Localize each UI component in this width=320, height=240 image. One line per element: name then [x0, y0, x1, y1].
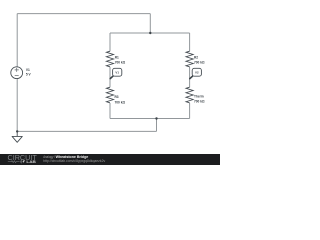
- svg-text:700 kΩ: 700 kΩ: [194, 61, 205, 65]
- svg-text:R1: R1: [115, 55, 119, 59]
- svg-text:700 kΩ: 700 kΩ: [115, 100, 126, 104]
- svg-text:LAB: LAB: [26, 160, 36, 164]
- svg-text:Therm: Therm: [194, 95, 204, 99]
- svg-text:http://circuitlab.com/c/8ypxgq: http://circuitlab.com/c/8ypxgq8dkqaezk2v: [43, 159, 105, 163]
- svg-text:700 kΩ: 700 kΩ: [194, 100, 205, 104]
- svg-text:R3: R3: [115, 95, 119, 99]
- svg-text:700 kΩ: 700 kΩ: [115, 61, 126, 65]
- svg-text:V1: V1: [115, 71, 119, 75]
- svg-text:V1: V1: [26, 68, 30, 72]
- svg-text:V2: V2: [195, 71, 199, 75]
- svg-text:R2: R2: [194, 55, 198, 59]
